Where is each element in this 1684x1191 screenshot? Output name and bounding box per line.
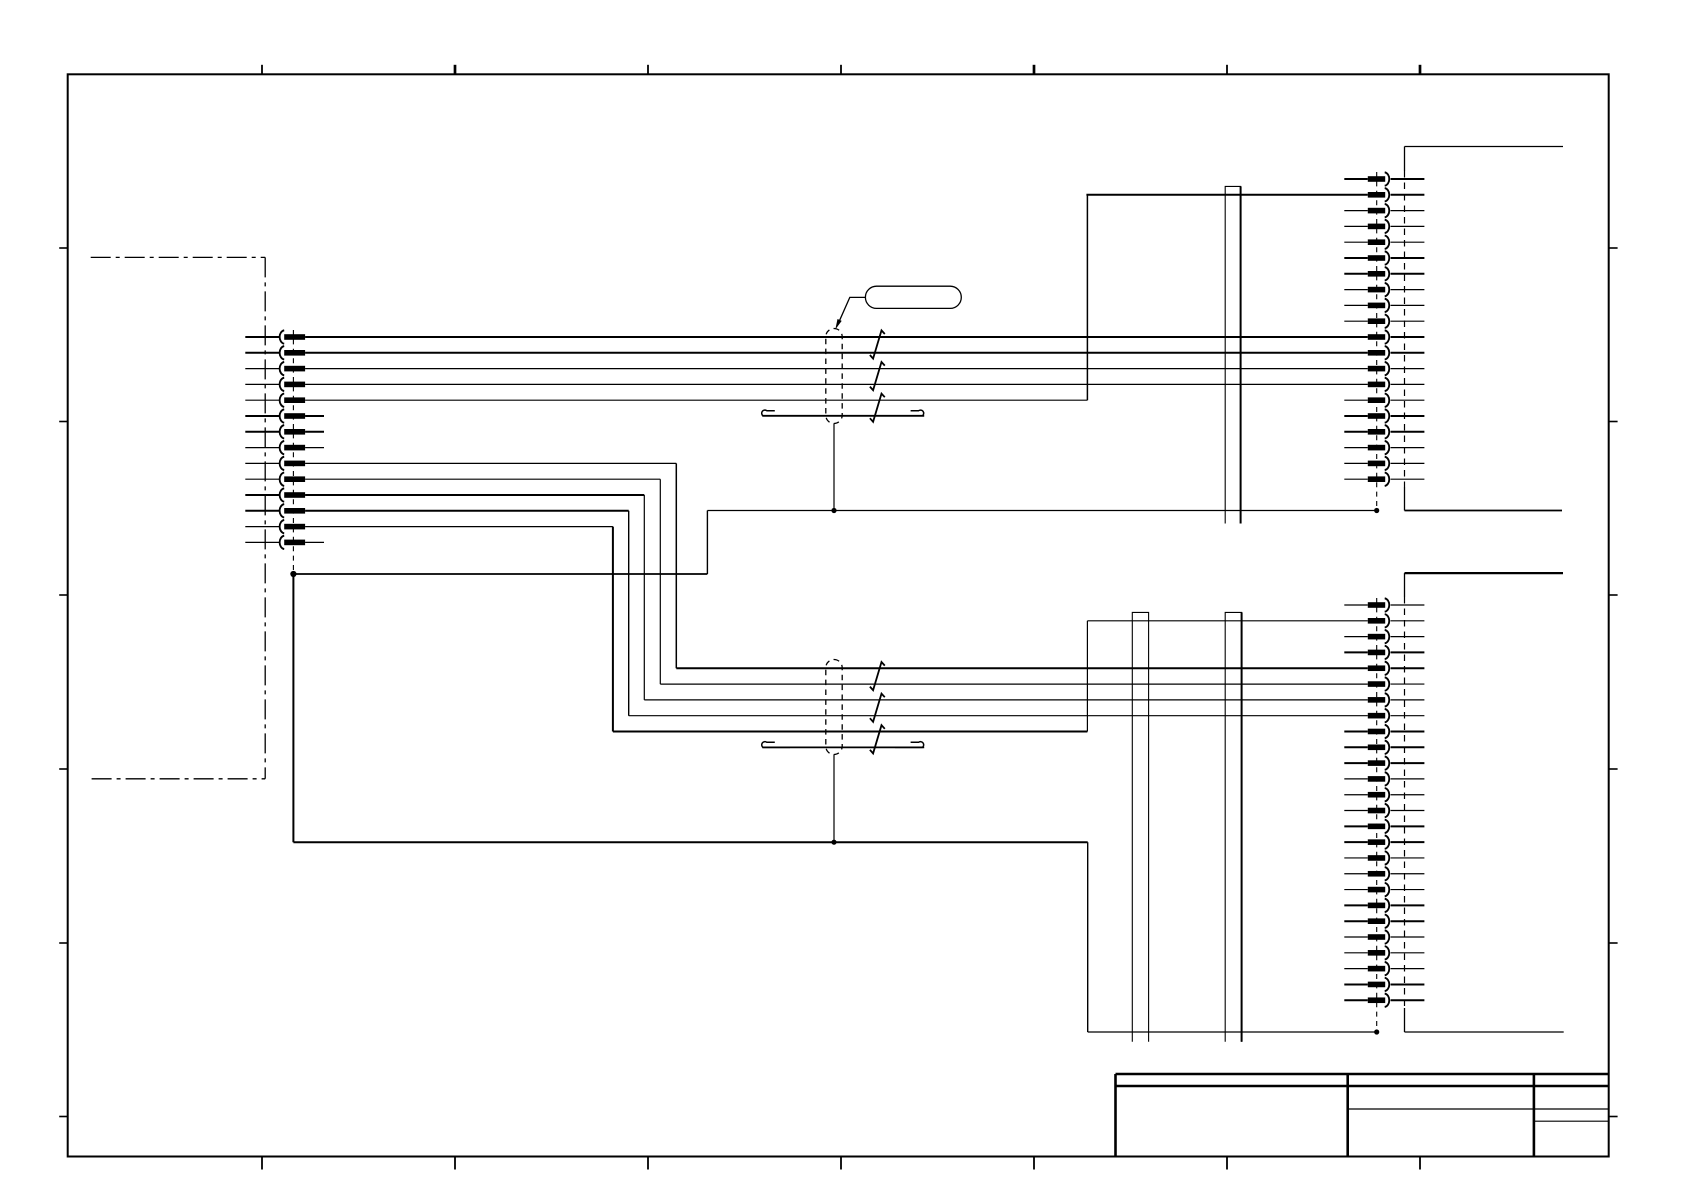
cable W2 fold-back right curl [895, 742, 924, 748]
connector J3 pin 8 (pin contact) [1368, 709, 1425, 722]
shield bus W2 (y=842.2) [293, 841, 1087, 843]
connector J3 pin 4 (pin contact) [1344, 646, 1424, 659]
connector J2 box left edge (solid bottom) [1404, 487, 1406, 511]
connector J1 pin 7 (socket contact) [245, 425, 305, 438]
shield wire J1 junction to x=707 [293, 573, 707, 575]
connector J1 centerline (dashed) [292, 330, 294, 574]
shield bus W1 (y=510.5) [707, 510, 1376, 512]
connector J3 pin 13 (pin contact) [1344, 788, 1424, 801]
connector J3 pin 26 (pin contact) [1344, 994, 1424, 1007]
enclosure boundary (dash-dot) bottom edge [92, 778, 266, 780]
wire W2 conductor 5 riser at x=1087 [1086, 621, 1088, 732]
cable W2 fold-back left curl [762, 742, 790, 748]
connector J3 pin 6 (pin contact) [1368, 677, 1425, 690]
connector J3 pin 11 (pin contact) [1344, 756, 1424, 769]
callout leader arrowhead [835, 319, 841, 330]
wire J1.11 vertical drop [643, 495, 645, 700]
cable duct sleeve A at J3 [1132, 612, 1148, 1041]
connector J2 pin 6 (pin contact) [1344, 251, 1424, 264]
connector J3 pin 21 (pin contact) [1344, 915, 1424, 928]
connector J2 pin 5 (pin contact) [1344, 236, 1424, 249]
connector J2 pin 9 (pin contact) [1344, 299, 1424, 312]
connector J3 pin 7 (pin contact) [1368, 693, 1425, 706]
pair mark W1 conductor 5 / screen [870, 394, 885, 422]
wire stub J1.7 [305, 431, 324, 433]
connector J3 pin 12 (pin contact) [1344, 772, 1424, 785]
connector J2 box left edge (dashed through pins) [1404, 171, 1406, 487]
connector J3 box bottom edge [1405, 1031, 1564, 1033]
wire J1.12 to J3.8 (cable W2 conductor 4) [629, 715, 1368, 717]
connector J2 pin 16 (pin contact) [1344, 409, 1424, 422]
connector J3 box top edge [1405, 572, 1564, 574]
connector J3 pin 10 (pin contact) [1344, 741, 1424, 754]
connector J2 pin 19 (pin contact) [1344, 457, 1424, 470]
connector J3 centerline (dashed) [1376, 598, 1378, 1032]
connector J1 pin 13 (socket contact) [245, 520, 305, 533]
connector J2 pin 15 (pin contact) [1344, 394, 1424, 407]
connector J3 pin 18 (pin contact) [1344, 867, 1424, 880]
cable duct sleeve B at J3 [1225, 612, 1241, 1041]
wire riser to J2.2 [1086, 194, 1367, 196]
connector J3 pin 16 (pin contact) [1344, 835, 1424, 848]
wire J1.12 vertical drop [628, 511, 630, 716]
connector J2 pin 11 (pin contact) [1368, 330, 1425, 343]
connector J2 box bottom edge [1405, 510, 1563, 512]
connector J1 pin 12 (socket contact) [245, 504, 305, 517]
title block [1116, 1074, 1609, 1157]
callout leader line [838, 297, 865, 323]
wire J1.11 to J3.7 (cable W2 conductor 3) [644, 699, 1368, 701]
connector J1 pin 6 (socket contact) [245, 409, 305, 422]
node shield junction at J1 [290, 571, 296, 577]
connector J3 pin 15 (pin contact) [1344, 820, 1424, 833]
wire J1.10 vertical drop [659, 479, 661, 684]
node cable W2 drain junction [831, 840, 836, 845]
wire J1.3 to J2.13 (cable W1 conductor 3) [305, 368, 1368, 370]
connector J2 pin 7 (pin contact) [1344, 267, 1424, 280]
wire J1.9 vertical drop [675, 463, 677, 668]
connector J1 pin 5 (socket contact) [245, 394, 305, 407]
connector J3 pin 9 (pin contact) [1344, 725, 1424, 738]
wire J1.13 vertical drop [612, 527, 614, 732]
cable duct sleeve at J2 [1225, 186, 1240, 523]
cable W1 drain wire [833, 424, 835, 511]
connector J2 pin 1 (pin contact) [1344, 172, 1424, 185]
connector J3 box left edge (dashed through pins) [1404, 597, 1406, 1008]
wire J1.9 to J3.5 (cable W2 conductor 1) [676, 667, 1368, 669]
wire stub J1.8 [305, 447, 324, 449]
wire stub J1.6 [305, 415, 324, 417]
wire J1.12 horizontal [305, 510, 629, 512]
node J2 shield junction [1374, 508, 1379, 513]
cable W1 screen (dashed stadium) [826, 329, 842, 424]
connector J2 pin 13 (pin contact) [1368, 362, 1425, 375]
connector J3 pin 2 (pin contact) [1368, 614, 1425, 627]
connector J2 pin 14 (pin contact) [1368, 378, 1425, 391]
wire J1.13 horizontal [305, 526, 613, 528]
connector J2 pin 17 (pin contact) [1344, 425, 1424, 438]
connector J2 pin 20 (pin contact) [1344, 473, 1424, 486]
wire J1.1 to J2.11 (cable W1 conductor 1) [305, 336, 1368, 338]
connector J3 box left edge (solid top) [1404, 573, 1406, 597]
wire J1.4 to J2.14 (cable W1 conductor 4) [305, 383, 1368, 385]
connector J3 pin 19 (pin contact) [1344, 883, 1424, 896]
cable W2 screen (dashed stadium) [826, 660, 842, 755]
cable W1 fold-back right curl [895, 410, 924, 416]
connector J1 pin 10 (socket contact) [245, 473, 305, 486]
connector J2 pin 2 (pin contact) [1368, 188, 1425, 201]
connector J2 pin 8 (pin contact) [1344, 283, 1424, 296]
connector J2 pin 18 (pin contact) [1344, 441, 1424, 454]
wire J1.13 run (cable W2 conductor 5) [613, 731, 1088, 733]
callout balloon (empty label) [865, 286, 961, 308]
connector J1 pin 2 (socket contact) [245, 346, 305, 359]
connector J3 pin 14 (pin contact) [1344, 804, 1424, 817]
connector J2 pin 4 (pin contact) [1344, 220, 1424, 233]
connector J3 pin 3 (pin contact) [1344, 630, 1424, 643]
wire J1.10 to J3.6 (cable W2 conductor 2) [660, 683, 1368, 685]
cable W1 screen fold-back line [762, 415, 924, 417]
wire J1.11 horizontal [305, 494, 644, 496]
connector J2 pin 3 (pin contact) [1344, 204, 1424, 217]
shield wire riser x=1087 down [1087, 842, 1089, 1032]
node J3 shield junction [1374, 1029, 1379, 1034]
wire riser to J3.2 [1087, 620, 1367, 622]
connector J2 box left edge (solid top) [1404, 147, 1406, 172]
connector J1 pin 9 (socket contact) [245, 457, 305, 470]
pair mark W2 conductors 3-4 [870, 694, 885, 722]
shield wire riser x=707 [706, 511, 708, 575]
connector J1 pin 3 (socket contact) [245, 362, 305, 375]
connector J1 pin 1 (socket contact) [245, 330, 305, 343]
pair mark W2 conductors 1-2 [870, 662, 885, 690]
connector J3 pin 23 (pin contact) [1344, 946, 1424, 959]
connector J2 centerline (dashed) [1376, 172, 1378, 511]
connector J3 pin 22 (pin contact) [1344, 930, 1424, 943]
cable W2 screen fold-back line [762, 746, 924, 748]
cable W2 drain wire [833, 755, 835, 843]
connector J3 pin 5 (pin contact) [1368, 662, 1425, 675]
node cable W1 drain junction [831, 508, 836, 513]
connector J1 pin 11 (socket contact) [245, 488, 305, 501]
wire J1.5 horizontal run (cable W1 conductor 5) [305, 399, 1087, 401]
shield wire to J3 (y=1032) [1088, 1031, 1377, 1033]
connector J3 pin 17 (pin contact) [1344, 851, 1424, 864]
connector J3 pin 25 (pin contact) [1344, 978, 1424, 991]
connector J3 pin 24 (pin contact) [1344, 962, 1424, 975]
enclosure boundary (dash-dot) right edge [264, 257, 266, 778]
wire stub J1.14 [305, 541, 324, 543]
connector J3 box left edge (solid bottom) [1404, 1008, 1406, 1032]
pair mark W1 conductors 1-2 [870, 330, 885, 358]
pair mark W2 conductor 5 / screen [870, 725, 885, 753]
enclosure boundary (dash-dot) top edge [91, 256, 266, 258]
connector J3 pin 1 (pin contact) [1344, 598, 1424, 611]
shield wire down left side x=293 [292, 574, 294, 842]
connector J2 pin 10 (pin contact) [1344, 315, 1424, 328]
connector J2 pin 12 (pin contact) [1368, 346, 1425, 359]
cable W1 fold-back left curl [762, 410, 790, 416]
connector J2 box top edge [1405, 146, 1564, 148]
wire J1.10 horizontal [305, 478, 660, 480]
wire J1.2 to J2.12 (cable W1 conductor 2) [305, 352, 1368, 354]
wire J1.9 horizontal [305, 462, 676, 464]
connector J1 pin 8 (socket contact) [245, 441, 305, 454]
wire J1.5 vertical riser at x=1087 [1086, 195, 1088, 400]
connector J3 pin 20 (pin contact) [1344, 899, 1424, 912]
connector J1 pin 4 (socket contact) [245, 378, 305, 391]
connector J1 pin 14 (socket contact) [245, 536, 305, 549]
pair mark W1 conductors 3-4 [870, 362, 885, 390]
